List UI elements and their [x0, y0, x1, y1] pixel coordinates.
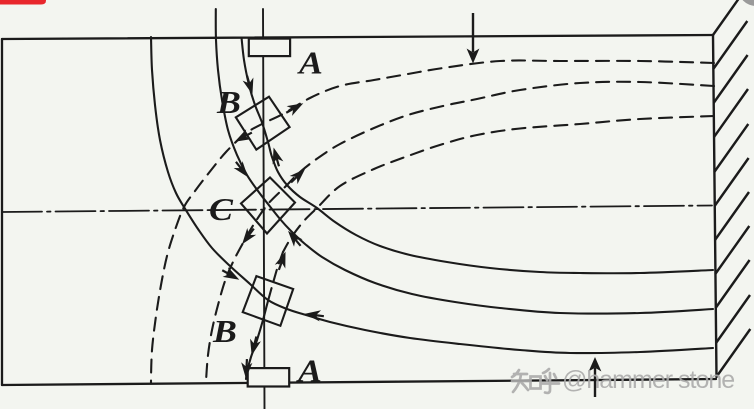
arrow on S2 above C (pointing down-right into element): [232, 158, 253, 180]
wire: dashed trajectory D3 upper part: [283, 116, 714, 252]
svg-text:@hammer stone: @hammer stone: [562, 366, 734, 394]
arrow on S1 left of B-bottom (pointing down-right into element): [220, 265, 242, 284]
hatching of fixed wall at right: [713, 0, 750, 377]
arrow on S3 above B (pointing down into element): [242, 74, 258, 96]
wire: trajectory D3 middle part (dashed through B-bottom element): [268, 252, 283, 301]
arrow on D1 left of B (pointing away down-left): [232, 128, 254, 147]
wire: solid trajectory S3: [242, 38, 714, 274]
arrow on D3 below B-bottom (pointing away down): [246, 335, 262, 357]
gray circle fragment top-right (cropped avatar): [738, 0, 754, 6]
element B (bottom): rotated square: [243, 276, 294, 326]
svg-text:A: A: [297, 46, 323, 81]
beam outline: top edge: [2, 35, 713, 39]
element A (top): small rectangle at top fibre: [249, 39, 290, 57]
watermark: zhihu logogram 知乎 (hand drawn, gray): [512, 369, 559, 393]
svg-text:B: B: [212, 315, 237, 350]
arrow on D2 right of C (pointing away up-right): [287, 165, 309, 187]
wire: trajectory D3 lower tail (solid with arrows to bottom edge): [246, 301, 268, 379]
beam outline: left edge: [1, 39, 3, 385]
arrow on S3 below B (pointing up into element): [268, 146, 284, 168]
beam outline: right edge (fixed support): [713, 35, 717, 377]
wire: dashed trajectory D1: [151, 60, 714, 383]
svg-text:C: C: [209, 193, 233, 228]
arrowheads on trajectories: [220, 74, 325, 379]
wire: dashed trajectory D2: [206, 82, 714, 382]
load arrow at top (downward): [467, 13, 480, 64]
arrow on D1 right of B (pointing away up-right): [284, 98, 306, 117]
centerline (neutral axis, dash-dot): [2, 206, 712, 213]
arrow at end of D3 at bottom edge: [240, 359, 252, 379]
arrow on D2 left of C (pointing away down-left): [238, 225, 259, 247]
beam outline: bottom edge: [2, 379, 716, 385]
wire: solid trajectory S1: [151, 37, 713, 353]
wire: solid trajectory S2: [216, 9, 713, 314]
arrow on S2 below C (pointing up-left into element): [284, 227, 305, 249]
red badge top-left (cropped logo): [0, 0, 46, 5]
reaction arrow at bottom (upward): [589, 357, 602, 397]
element A (bottom): small rectangle at bottom fibre: [248, 368, 290, 386]
arrow on S1 right of B-bottom (pointing left into element): [304, 308, 325, 321]
section line through A,B,C,B,A: [263, 9, 265, 409]
svg-text:A: A: [296, 354, 322, 389]
element C: 45deg rotated square at neutral axis: [241, 178, 295, 234]
svg-text:B: B: [216, 86, 241, 121]
arrow on D3 above B-bottom (pointing away up): [274, 250, 291, 272]
element B (top): rotated square: [236, 97, 290, 150]
